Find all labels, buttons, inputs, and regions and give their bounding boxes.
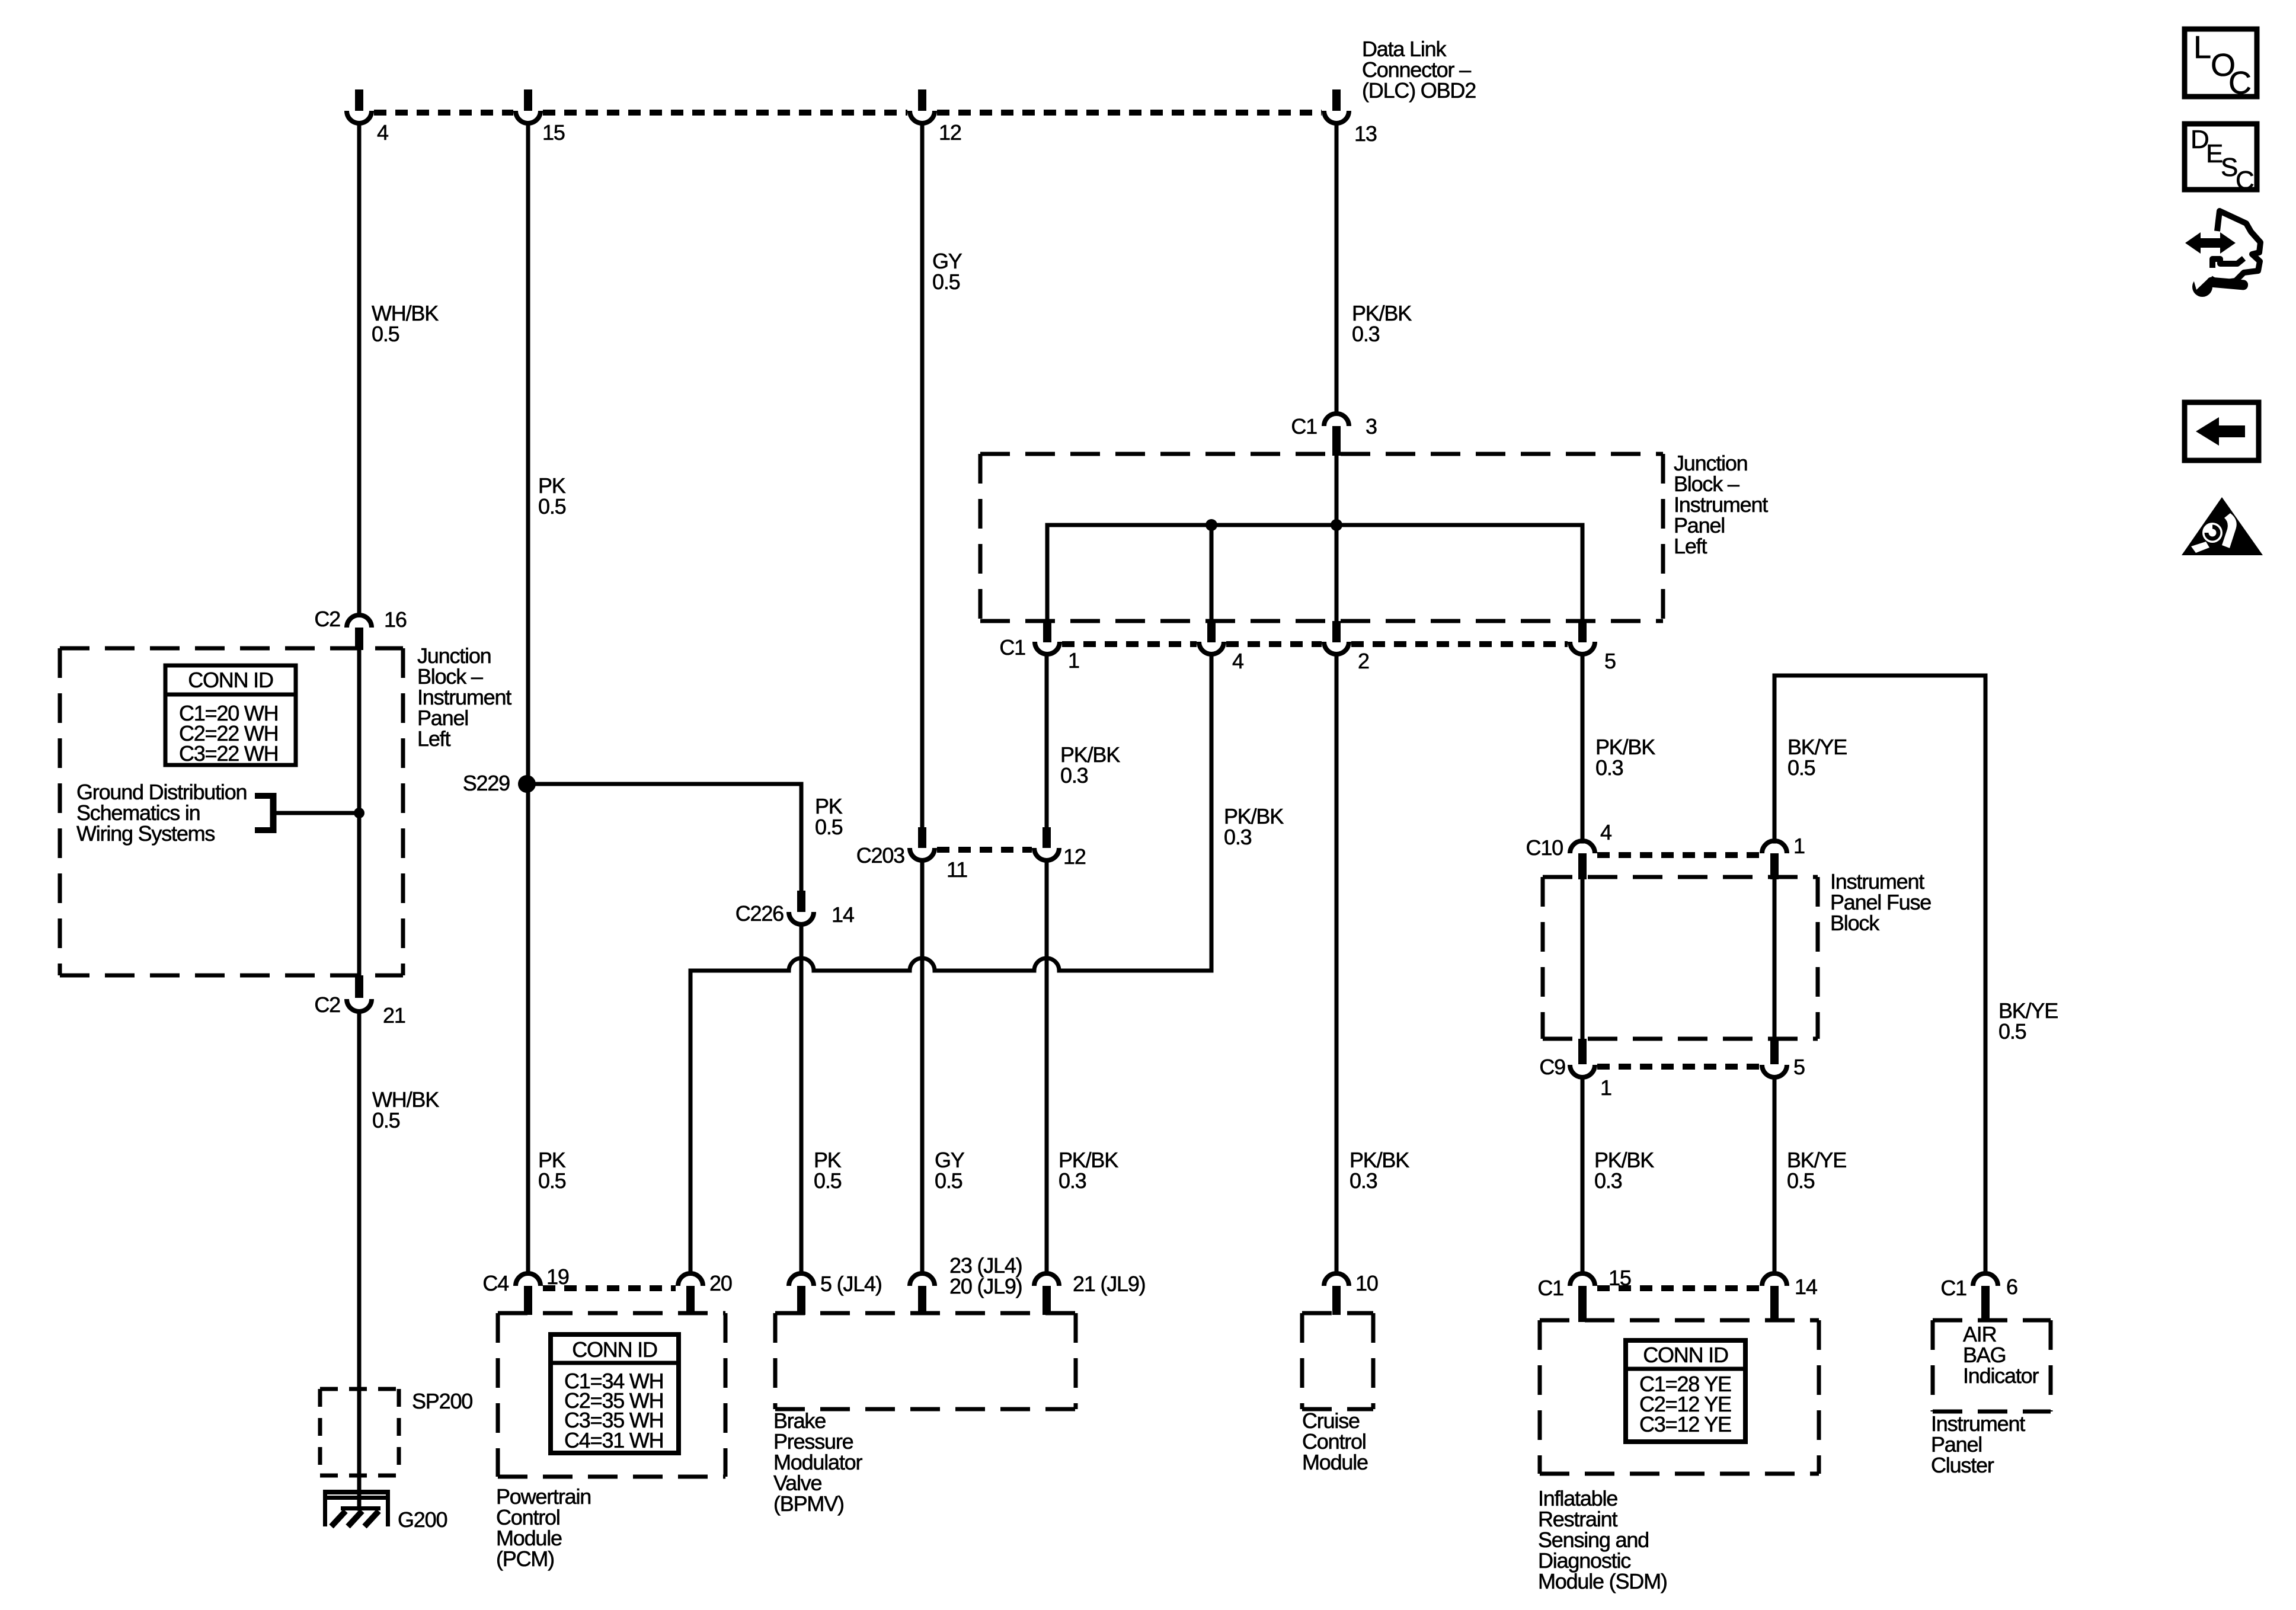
svg-text:Indicator: Indicator: [1963, 1363, 2039, 1388]
wire: junction block internal bus: [1047, 525, 1582, 622]
connector 5 JL4 (BPMV): [789, 1272, 882, 1315]
label BK/YE 0.5 (upper): [1787, 735, 1847, 780]
svg-text:C1: C1: [1940, 1276, 1966, 1300]
svg-text:4: 4: [1600, 820, 1611, 844]
svg-text:Wiring Systems: Wiring Systems: [76, 821, 215, 846]
connector C1-4 (junction block bottom): [1199, 621, 1243, 673]
icon: airbag warning triangle: [2182, 497, 2263, 555]
wire PK from pin 15 down to C4-19: [526, 123, 530, 1273]
svg-text:(PCM): (PCM): [496, 1547, 554, 1571]
svg-text:10: 10: [1355, 1271, 1378, 1295]
label GY 0.5 (upper): [932, 249, 962, 294]
label: Inflatable Restraint Sensing and Diagnostic Module (SDM): [1538, 1486, 1667, 1593]
junction block - instrument panel left (dashed box): [980, 454, 1663, 621]
wire WH/BK from C2-21 down to G200: [357, 1012, 362, 1509]
label PK/BK 0.3 (upper): [1352, 301, 1412, 346]
connector C1-5 (junction block bottom): [1570, 621, 1616, 673]
wire: dashed connector row C203: [937, 847, 1032, 853]
connector 21 JL9 (BPMV): [1034, 1272, 1145, 1315]
label: AIR BAG Indicator: [1963, 1322, 2039, 1388]
connector pin 13 (DLC): [1324, 89, 1377, 146]
wire: dashed connector row C9: [1597, 1064, 1760, 1070]
svg-text:1: 1: [1793, 834, 1805, 858]
svg-text:0.5: 0.5: [1787, 1169, 1815, 1193]
svg-text:1: 1: [1600, 1076, 1611, 1100]
svg-text:5 (JL4): 5 (JL4): [820, 1272, 882, 1296]
svg-text:0.5: 0.5: [538, 494, 566, 518]
svg-text:C4=31 WH: C4=31 WH: [564, 1428, 663, 1452]
svg-text:4: 4: [377, 120, 388, 145]
wire through left junction block: [357, 648, 362, 975]
label PK/BK 0.3 (C1-4 branch): [1224, 804, 1284, 849]
wire: dashed connector row C1: [1062, 641, 1568, 647]
svg-text:0.3: 0.3: [1594, 1169, 1622, 1193]
svg-text:15: 15: [542, 120, 565, 145]
wire BK/YE from C9-5 down to SDM C1-14: [1773, 1077, 1777, 1273]
label: Cruise Control Module: [1302, 1409, 1368, 1474]
svg-text:0.3: 0.3: [1350, 1169, 1377, 1193]
wire: DLC dashed bus (top): [374, 110, 1322, 116]
svg-text:C203: C203: [856, 843, 904, 868]
svg-text:0.5: 0.5: [1787, 756, 1815, 780]
wire PK branch from S229 to C226: [527, 784, 801, 892]
inflatable restraint SDM (dashed box): [1540, 1320, 1819, 1474]
label: Data Link Connector (DLC) OBD2: [1362, 37, 1476, 103]
svg-text:12: 12: [939, 120, 961, 145]
svg-text:21: 21: [383, 1003, 405, 1028]
svg-text:C3=22 WH: C3=22 WH: [179, 741, 278, 766]
label PK 0.5 (upper): [538, 473, 566, 518]
svg-text:Module (SDM): Module (SDM): [1538, 1569, 1667, 1593]
svg-text:0.3: 0.3: [1352, 322, 1380, 346]
wire C1-3 into junction block: [1335, 454, 1339, 622]
svg-text:G200: G200: [398, 1507, 447, 1532]
connector C9-5 (fuse block bottom): [1762, 1039, 1805, 1079]
svg-text:Block: Block: [1830, 911, 1880, 935]
svg-text:C4: C4: [482, 1271, 509, 1295]
wire PK/BK from C1-2 down to cruise control: [1335, 654, 1339, 1273]
label: Powertrain Control Module (PCM): [496, 1484, 591, 1571]
svg-text:CONN ID: CONN ID: [572, 1337, 657, 1362]
svg-text:0.5: 0.5: [815, 815, 843, 839]
connector C1-2 (junction block bottom): [1324, 621, 1369, 673]
reference bracket to ground distribution: [255, 793, 359, 833]
label PK/BK 0.3 (lower, cruise): [1350, 1148, 1409, 1193]
svg-text:L: L: [2193, 30, 2211, 65]
svg-text:Left: Left: [1674, 534, 1707, 558]
svg-text:0.3: 0.3: [1059, 1169, 1086, 1193]
svg-text:CONN ID: CONN ID: [1643, 1343, 1728, 1367]
svg-text:C2: C2: [314, 993, 340, 1017]
wire: dashed connector row C10: [1597, 852, 1760, 858]
label PK 0.5 (lower, BPMV): [814, 1148, 842, 1193]
icon: back arrow box: [2185, 402, 2259, 460]
svg-text:SP200: SP200: [412, 1389, 472, 1413]
icon: DESC box: [2185, 124, 2257, 195]
svg-text:5: 5: [1604, 649, 1616, 673]
label PK/BK 0.3 (C1-5 branch): [1595, 735, 1655, 780]
svg-text:11: 11: [946, 857, 967, 882]
svg-text:0.5: 0.5: [372, 1108, 400, 1132]
splice pack SP200 (dashed box): [320, 1389, 472, 1475]
label GY 0.5 (lower): [935, 1148, 965, 1193]
svg-text:20 (JL9): 20 (JL9): [949, 1274, 1022, 1298]
connector C2-16 (left junction block top): [314, 607, 406, 650]
svg-text:14: 14: [832, 902, 854, 927]
svg-text:2: 2: [1358, 649, 1369, 673]
powertrain control module PCM (dashed box): [498, 1313, 725, 1477]
svg-text:(DLC) OBD2: (DLC) OBD2: [1362, 78, 1476, 103]
svg-text:0.3: 0.3: [1595, 756, 1623, 780]
CONN ID table (SDM): [1626, 1340, 1745, 1442]
connector C4-19 (PCM): [482, 1265, 568, 1315]
svg-text:3: 3: [1366, 414, 1377, 438]
connector C1-3 (junction block top): [1291, 414, 1377, 456]
svg-text:S229: S229: [463, 771, 510, 795]
label BK/YE 0.5 (right side): [1998, 998, 2058, 1044]
svg-text:C3=12 YE: C3=12 YE: [1639, 1412, 1731, 1436]
svg-text:13: 13: [1354, 121, 1377, 146]
label: Instrument Panel Fuse Block: [1830, 869, 1931, 935]
svg-text:C226: C226: [736, 901, 784, 926]
connector pin 4 (DLC): [347, 89, 388, 145]
svg-text:14: 14: [1795, 1275, 1817, 1299]
label PK/BK 0.3 (lower, BPMV 21): [1059, 1148, 1118, 1193]
connector C203-11: [856, 827, 967, 882]
svg-text:0.3: 0.3: [1060, 763, 1088, 788]
svg-text:0.3: 0.3: [1224, 825, 1252, 849]
connector C9-1 (fuse block bottom): [1539, 1039, 1611, 1100]
instrument panel fuse block (dashed box): [1543, 877, 1818, 1039]
svg-text:0.5: 0.5: [372, 322, 399, 346]
node: bus junction dot at x2255: [1331, 519, 1342, 531]
connector C1-14 (SDM): [1762, 1273, 1817, 1322]
label PK/BK 0.3 (below C1-1): [1060, 742, 1120, 788]
svg-text:C1: C1: [999, 635, 1025, 660]
svg-text:C10: C10: [1526, 836, 1563, 860]
svg-text:C1: C1: [1291, 414, 1317, 438]
wire PK/BK from pin 13 down to C1-3: [1335, 123, 1339, 414]
node S229 splice: [463, 771, 536, 795]
svg-text:5: 5: [1793, 1055, 1805, 1079]
wire: dashed connector row C4: [543, 1285, 676, 1291]
wire GY from pin 12 down to C203-11: [920, 123, 925, 828]
connector C4-20 (PCM): [678, 1271, 732, 1315]
svg-text:21 (JL9): 21 (JL9): [1073, 1272, 1145, 1296]
svg-text:C: C: [2236, 166, 2255, 195]
node: dot on WH/BK wire: [354, 808, 364, 818]
ground G200: [323, 1490, 447, 1532]
connector C1-15 (SDM): [1537, 1266, 1630, 1322]
svg-text:Cluster: Cluster: [1931, 1453, 1994, 1477]
svg-text:4: 4: [1232, 649, 1243, 673]
icon: diagram/wrench symbol: [2185, 211, 2260, 297]
junction block left (dashed box): [60, 648, 403, 975]
label PK 0.5 (C226 branch): [815, 794, 843, 839]
connector C1-6 (instrument panel cluster): [1940, 1273, 2017, 1322]
label: Ground Distribution Schematics in Wiring Systems: [76, 780, 247, 846]
label: Junction Block - Instrument Panel Left (right box): [1674, 451, 1768, 558]
svg-text:0.5: 0.5: [935, 1169, 962, 1193]
svg-text:0.5: 0.5: [1998, 1019, 2026, 1044]
svg-text:0.5: 0.5: [814, 1169, 842, 1193]
connector C10-1 (fuse block top): [1762, 834, 1805, 879]
svg-text:12: 12: [1063, 844, 1086, 869]
icon: LOC box: [2185, 29, 2257, 101]
wire PK/BK from C1-4 down and left to PCM 20: [690, 654, 1211, 1273]
svg-text:C9: C9: [1539, 1055, 1565, 1079]
svg-text:C2: C2: [314, 607, 340, 631]
label BK/YE 0.5 (SDM): [1787, 1148, 1846, 1193]
wire: dashed connector row SDM C1: [1597, 1285, 1760, 1291]
svg-text:0.5: 0.5: [538, 1169, 566, 1193]
wire PK from C226-14 down to BPMV 5: [800, 924, 804, 1273]
connector C10-4 (fuse block top): [1526, 820, 1611, 879]
label WH/BK 0.5 (lower): [372, 1087, 439, 1132]
svg-text:1: 1: [1068, 648, 1079, 673]
svg-text:19: 19: [546, 1265, 569, 1289]
connector 10 (cruise control module): [1324, 1271, 1378, 1315]
svg-text:C: C: [2228, 65, 2252, 101]
svg-text:C1: C1: [1537, 1276, 1563, 1300]
label PK 0.5 (lower, PCM): [538, 1148, 566, 1193]
svg-text:20: 20: [709, 1271, 732, 1295]
air bag indicator (dashed box): [1933, 1320, 2051, 1411]
label: Instrument Panel Cluster: [1931, 1411, 2025, 1477]
svg-text:Module: Module: [1302, 1450, 1368, 1474]
connector C2-21 (left junction block bottom): [314, 975, 405, 1028]
label: Junction Block - Instrument Panel Left (left box): [417, 644, 511, 751]
wire GY from C203-11 down to BPMV: [920, 860, 925, 1273]
label: Brake Pressure Modulator Valve (BPMV): [773, 1409, 862, 1516]
connector pin 15 (DLC): [516, 89, 565, 145]
cruise control module (dashed box): [1302, 1313, 1373, 1409]
svg-text:0.5: 0.5: [932, 270, 960, 294]
connector 23 JL4 / 20 JL9 (BPMV): [910, 1253, 1022, 1315]
wire PK/BK from C203-12 down to BPMV 21: [1045, 860, 1049, 1273]
wire PK/BK from C1-5 down to C10-4: [1581, 654, 1585, 841]
svg-text:(BPMV): (BPMV): [773, 1491, 844, 1516]
wires through fuse block: [1582, 877, 1774, 1039]
svg-text:Left: Left: [417, 726, 450, 751]
CONN ID table (left junction block): [165, 665, 296, 766]
connector C1-1 (junction block bottom): [999, 621, 1079, 673]
brake pressure modulator valve BPMV (dashed box): [775, 1313, 1076, 1409]
wire PK/BK from C9-1 down to SDM C1-15: [1581, 1077, 1585, 1273]
svg-text:6: 6: [2006, 1275, 2017, 1299]
connector C203-12: [1034, 827, 1086, 869]
svg-text:16: 16: [384, 607, 407, 632]
connector pin 12 (DLC): [910, 89, 961, 145]
node: bus junction dot at x2044: [1205, 519, 1217, 531]
wire PK/BK from C1-1 down to C203-12: [1045, 654, 1049, 828]
CONN ID table (PCM): [551, 1334, 679, 1453]
svg-text:CONN ID: CONN ID: [188, 668, 273, 692]
label PK/BK 0.3 (SDM): [1594, 1148, 1654, 1193]
connector C226-14: [736, 891, 854, 927]
label WH/BK 0.5 (upper): [372, 301, 439, 346]
wire WH/BK from pin 4 down to C2-16: [357, 123, 362, 615]
wire BK/YE top run to airbag indicator: [1774, 676, 1985, 1273]
